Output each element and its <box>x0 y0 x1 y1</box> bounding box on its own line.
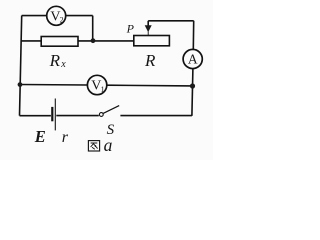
svg-text:2: 2 <box>60 16 64 25</box>
svg-text:1: 1 <box>101 85 105 94</box>
svg-text:r: r <box>62 129 69 146</box>
svg-text:P: P <box>126 21 135 35</box>
svg-text:x: x <box>60 59 66 70</box>
svg-text:A: A <box>188 52 198 67</box>
svg-text:E: E <box>34 127 46 146</box>
svg-text:a: a <box>104 135 113 155</box>
svg-text:R: R <box>49 51 61 70</box>
svg-text:R: R <box>144 51 156 70</box>
